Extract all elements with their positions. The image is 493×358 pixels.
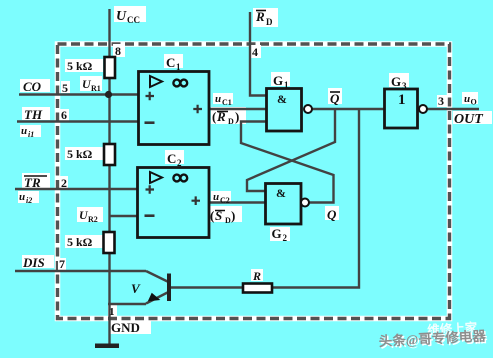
svg-text:D: D	[228, 117, 234, 126]
svg-text:O: O	[471, 98, 477, 107]
svg-text:1: 1	[284, 80, 289, 90]
svg-text:i1: i1	[28, 130, 34, 139]
svg-text:CO: CO	[23, 79, 42, 94]
svg-text:5 kΩ: 5 kΩ	[67, 59, 93, 73]
svg-text:R: R	[252, 269, 261, 283]
svg-text:&: &	[277, 92, 287, 106]
svg-text:&: &	[276, 186, 286, 200]
svg-text:TR: TR	[24, 175, 41, 190]
svg-text:u: u	[464, 93, 470, 105]
svg-text:DIS: DIS	[22, 255, 45, 270]
svg-text:GND: GND	[111, 320, 140, 335]
svg-text:2: 2	[283, 233, 288, 243]
svg-text:8: 8	[115, 44, 121, 58]
svg-text:): )	[235, 109, 239, 124]
svg-text:4: 4	[252, 45, 258, 59]
svg-text:OUT: OUT	[454, 112, 484, 127]
svg-text:): )	[231, 208, 235, 223]
svg-text:C: C	[166, 55, 175, 70]
svg-text:CC: CC	[127, 15, 140, 25]
svg-text:G: G	[391, 74, 401, 89]
svg-text:1: 1	[176, 62, 181, 72]
svg-text:u: u	[215, 93, 221, 105]
svg-text:Q: Q	[330, 91, 340, 106]
svg-text:C: C	[167, 151, 176, 166]
svg-text:u: u	[19, 191, 25, 203]
svg-text:6: 6	[61, 108, 67, 122]
svg-text:Q: Q	[327, 207, 337, 222]
svg-text:2: 2	[61, 176, 67, 190]
svg-text:7: 7	[59, 257, 65, 271]
svg-text:TH: TH	[24, 107, 43, 122]
svg-text:u: u	[213, 191, 219, 203]
svg-text:(: (	[210, 208, 214, 223]
svg-text:C1: C1	[222, 98, 232, 107]
svg-text:(: (	[212, 109, 216, 124]
svg-text:G: G	[273, 73, 283, 88]
svg-text:i2: i2	[26, 196, 32, 205]
svg-text:R1: R1	[91, 84, 101, 93]
svg-text:U: U	[116, 9, 127, 24]
svg-text:3: 3	[402, 81, 407, 91]
svg-text:5 kΩ: 5 kΩ	[67, 235, 93, 249]
svg-text:3: 3	[438, 94, 444, 108]
svg-text:V: V	[131, 281, 141, 296]
svg-text:D: D	[266, 17, 273, 27]
svg-text:5: 5	[62, 81, 68, 95]
svg-text:1: 1	[109, 306, 115, 318]
svg-text:R2: R2	[88, 215, 98, 224]
svg-text:5 kΩ: 5 kΩ	[67, 147, 93, 161]
svg-text:u: u	[21, 125, 27, 137]
svg-text:C2: C2	[220, 196, 230, 205]
svg-text:1: 1	[398, 92, 406, 108]
svg-text:2: 2	[177, 158, 182, 168]
svg-text:G: G	[272, 226, 282, 241]
